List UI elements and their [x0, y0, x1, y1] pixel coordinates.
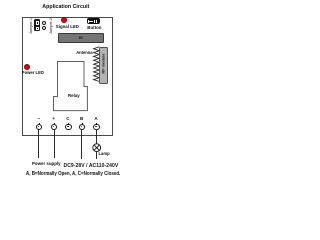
IC label [79, 36, 83, 40]
AC/DC rating label [64, 163, 119, 169]
IC U1 [58, 33, 104, 43]
terminal B [82, 123, 83, 125]
title Application Circuit [42, 4, 89, 10]
button bracket left [87, 20, 90, 23]
button bracket right2 [95, 20, 98, 23]
button S1 [87, 18, 100, 24]
RF module label [100, 50, 105, 78]
jumper J1 pin 2 [36, 27, 40, 31]
relay label [68, 93, 80, 98]
antenna label [76, 50, 92, 55]
button label [87, 25, 101, 30]
button bracket right [93, 20, 96, 23]
terminal C [68, 123, 69, 125]
signal LED label [56, 24, 79, 29]
signal LED [61, 17, 67, 23]
wire lamp to source [96, 151, 97, 159]
jumper J1 pin 1 [36, 21, 40, 25]
terminal - [39, 123, 40, 125]
jumper J1 block [34, 19, 40, 30]
wire B [81, 129, 82, 159]
PCB board outline [22, 17, 113, 136]
power supply label [32, 161, 61, 166]
button cap mark [88, 21, 93, 22]
jumper J2 label [49, 17, 53, 35]
terminal A [96, 123, 97, 125]
RF module M1 [99, 47, 108, 84]
jumper J2 pad 2 [42, 26, 46, 30]
wire A to lamp [96, 129, 97, 144]
lamp L1 [92, 143, 101, 152]
note normally open/closed [26, 171, 120, 177]
power LED [24, 64, 30, 70]
terminal + [54, 123, 55, 125]
lamp label [99, 151, 110, 156]
relay K1 outline [52, 60, 89, 113]
jumper J1 label [29, 17, 33, 35]
antenna coil [91, 46, 103, 84]
jumper J2 pad 1 [42, 21, 46, 25]
power LED label [22, 70, 44, 75]
wire minus [38, 129, 39, 158]
wire plus [54, 129, 55, 158]
